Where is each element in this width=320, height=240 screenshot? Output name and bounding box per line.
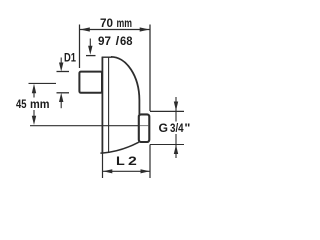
dimension D1 upper arrow [60, 58, 62, 65]
L2 extension line left [102, 153, 104, 178]
dimension D1 tick bottom [57, 92, 70, 94]
inlet centerline extension [29, 82, 57, 84]
body top edge [102, 56, 112, 58]
body bottom curve [100, 142, 138, 153]
tick 97/68 [86, 55, 96, 57]
L2 arrow right [141, 169, 150, 173]
G arrow bottom pointing up [175, 134, 177, 158]
arrow right of 70 mm [140, 27, 150, 31]
inlet stub [79, 72, 102, 93]
extension line left (inlet face) [79, 25, 81, 69]
dimension 45 mm upper arrow [32, 84, 36, 93]
L2 extension line right [149, 145, 151, 179]
extension line right (outlet face) [149, 25, 151, 112]
svg-text:45mm: 45mm [16, 97, 50, 111]
svg-text:G3/4": G3/4" [159, 121, 191, 135]
arrow left of 70 mm [80, 27, 90, 31]
centerline through outlet stub [140, 125, 149, 127]
L2 dimension line [103, 170, 150, 172]
dimension D1 tick top [57, 71, 70, 73]
svg-text:70mm: 70mm [100, 16, 132, 30]
wall plate outer line [101, 57, 103, 154]
svg-text:D1: D1 [64, 53, 76, 65]
body right curve [111, 57, 139, 115]
arrow 97/68 pointing down [89, 39, 91, 49]
G extension line top [150, 110, 184, 112]
dimension 45 mm lower arrow [33, 110, 35, 118]
outlet stub [139, 114, 150, 142]
outlet centerline [30, 125, 139, 127]
dimension D1 lower arrow [59, 93, 63, 102]
wall plate inner line [108, 57, 110, 152]
L2 arrow left [103, 169, 112, 173]
G arrow top pointing down [175, 97, 177, 122]
svg-text:97/68: 97/68 [98, 34, 133, 48]
G extension line bottom [150, 144, 184, 146]
svg-text:L2: L2 [116, 154, 137, 168]
dimension line 70 mm [80, 29, 150, 31]
